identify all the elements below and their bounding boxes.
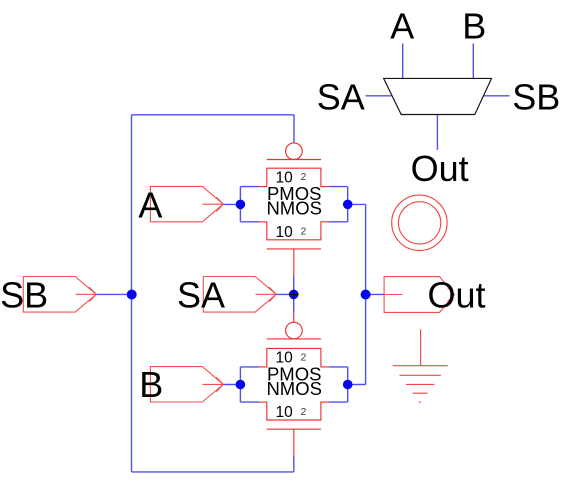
wire out net to TG2 drain [348,384,366,386]
pin SB arrow [75,293,96,295]
pin A body [150,186,223,221]
pin B body [150,367,223,402]
transistor TG1 pmos body [258,168,329,186]
svg-text:NMOS: NMOS [266,378,322,399]
wire SB net left vertical [131,115,133,472]
transistor TG2 nmos body [258,402,329,420]
transistor TG2 pmos body [258,348,329,367]
wire Out from mux [436,115,438,150]
pin Out arrow [385,294,403,296]
transistor TG1 nmos gate bar [267,248,321,250]
svg-text:SB: SB [512,76,560,117]
wire SB net down to TG1 bubble [293,115,295,143]
power symbol outer circle [392,195,447,250]
svg-text:Out: Out [427,275,485,316]
wire B pin to junction [223,384,240,386]
wire A to TG1 pmos source [240,186,259,188]
wire B input to mux [472,44,474,79]
wire A riser left of TG1 [239,187,241,222]
pin SB body [23,277,96,313]
pin Out body [384,277,454,313]
svg-text:B: B [462,5,486,46]
svg-text:10: 10 [275,224,293,241]
svg-text:SA: SA [317,76,365,117]
node TG2 drain junction [343,380,353,390]
node SA junction [289,290,299,300]
svg-text:A: A [390,5,414,46]
wire TG1 drain to out vertical [348,203,366,205]
wire TG2 nmos drain [329,401,348,403]
transistor TG1 nmos body [258,222,329,240]
node TG1 drain junction [343,200,353,210]
wire riser right of TG1 [347,187,349,222]
wire SB net top horizontal [132,114,295,116]
transistor TG1 pmos gate bar [267,159,321,161]
wire SB pin to junction [96,293,131,295]
node A junction [236,200,246,210]
wire out junction to Out pin [366,293,385,295]
ground bar 2 [400,374,441,376]
svg-text:SB: SB [0,275,48,316]
wire A pin to junction [223,203,240,205]
pin SA body [203,277,276,313]
wire SA net down to TG2 bubble [293,294,295,312]
wire TG1 pmos drain [329,186,348,188]
ground bar 5 [419,401,421,403]
transistor TG2 pmos gate bar [267,338,321,340]
wire SA pin to junction [276,293,294,295]
wire riser right of TG2 [347,367,349,402]
power symbol inner circle [398,202,440,244]
wire TG2 nmos gate lead (red) [293,429,295,456]
svg-text:10: 10 [275,404,293,421]
pin A arrow [203,203,224,205]
wire B to TG2 pmos source [240,366,259,368]
svg-text:Out: Out [411,148,469,189]
svg-text:2: 2 [300,226,306,238]
pin SA arrow [255,293,276,295]
wire SA net up to TG1 nmos gate [293,276,295,295]
node Out junction [361,290,371,300]
svg-text:SA: SA [177,275,225,316]
wire A to TG1 nmos source [240,221,259,223]
wire TG2 pmos drain [329,366,348,368]
wire B riser left of TG2 [239,367,241,402]
pin B arrow [203,383,224,385]
transistor TG1 pmos gate bubble [286,143,303,160]
wire SA select to mux [366,95,393,97]
ground bar 1 [393,365,448,367]
svg-text:A: A [138,184,162,225]
wire out net vertical [365,204,367,384]
svg-text:2: 2 [300,171,306,183]
ground bar 4 [413,392,428,394]
svg-text:NMOS: NMOS [266,198,322,219]
wire TG1 nmos gate lead (red) [293,249,295,276]
ground bar 3 [406,383,435,385]
ground stem [420,329,422,365]
mux body (trapezoid) [384,78,492,114]
svg-text:2: 2 [300,351,306,363]
transistor TG2 nmos gate bar [267,428,321,430]
wire SB net bottom horizontal [132,471,294,473]
transistor TG2 pmos gate bubble [286,322,303,339]
wire A input to mux [402,44,404,79]
wire TG2 pmos gate lead (red) [293,313,295,322]
wire B to TG2 nmos source [240,401,259,403]
cell center marker [289,290,299,300]
wire SB net up to TG2 nmos gate [293,456,295,472]
svg-text:2: 2 [300,406,306,418]
wire TG1 nmos drain [329,221,348,223]
svg-text:B: B [139,364,163,405]
node B junction [236,380,246,390]
node SB junction [127,290,137,300]
wire SB select to mux [483,95,510,97]
